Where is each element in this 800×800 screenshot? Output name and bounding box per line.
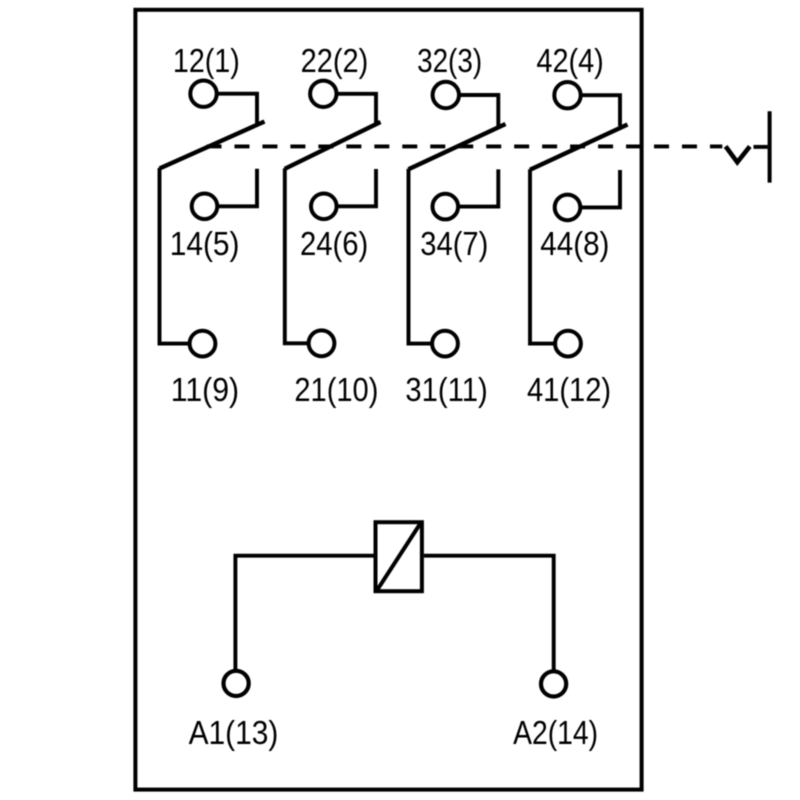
terminal 11(9) common: [190, 331, 216, 357]
wire pole4 NO stub: [580, 170, 620, 207]
terminal A1(13) coil +: [224, 671, 249, 696]
svg-text:31(11): 31(11): [405, 371, 487, 408]
svg-text:41(12): 41(12): [527, 371, 611, 408]
contact blade pole3: [409, 124, 506, 169]
coil diagonal: [378, 524, 421, 590]
svg-text:A2(14): A2(14): [513, 714, 598, 751]
svg-text:44(8): 44(8): [540, 225, 609, 262]
wire coil right: [424, 556, 554, 672]
svg-text:42(4): 42(4): [536, 42, 603, 79]
svg-text:11(9): 11(9): [171, 371, 239, 408]
terminal 41(12) common: [555, 331, 581, 357]
svg-text:24(6): 24(6): [300, 225, 368, 262]
wire pole1 common: [160, 168, 191, 344]
wire coil left: [235, 556, 373, 671]
relay body outline: [135, 10, 641, 790]
terminal 32(3) NC: [433, 82, 459, 108]
terminal 22(2) NC: [310, 81, 336, 107]
wire pole2 NO stub: [336, 169, 376, 206]
terminal 31(11) common: [432, 331, 458, 357]
terminal 14(5) NO: [192, 194, 218, 220]
coil K1: [376, 522, 422, 591]
wire pole2 NC arm: [336, 94, 376, 126]
terminal 44(8) NO: [555, 195, 581, 221]
terminal A2(14) coil -: [541, 671, 566, 696]
terminal 42(4) NC: [554, 82, 580, 108]
contact blade pole1: [160, 122, 265, 169]
terminal 34(7) NO: [433, 194, 459, 220]
actuator dashed link: [207, 144, 723, 148]
svg-text:14(5): 14(5): [170, 225, 240, 262]
actuator notch: [726, 146, 750, 162]
terminal 21(10) common: [309, 330, 335, 356]
svg-text:34(7): 34(7): [420, 225, 488, 262]
wire pole2 common: [285, 168, 309, 343]
wire pole3 common: [409, 169, 433, 344]
terminal 12(1) NC: [190, 81, 216, 107]
wire pole3 NO stub: [458, 169, 499, 206]
contact blade pole2: [285, 122, 381, 169]
svg-text:22(2): 22(2): [301, 42, 369, 79]
svg-text:A1(13): A1(13): [189, 714, 279, 751]
terminal 24(6) NO: [311, 194, 337, 220]
actuator bar: [768, 111, 772, 182]
actuator link segment: [754, 145, 768, 149]
contact blade pole4: [530, 125, 628, 170]
svg-text:21(10): 21(10): [294, 371, 378, 408]
wire pole1 NO stub: [217, 169, 257, 207]
wire pole1 NC arm: [216, 94, 257, 126]
svg-text:12(1): 12(1): [173, 42, 240, 79]
svg-text:32(3): 32(3): [417, 42, 482, 79]
wire pole3 NC arm: [459, 95, 499, 126]
wire pole4 common: [530, 169, 556, 343]
wire pole4 NC arm: [580, 95, 620, 126]
